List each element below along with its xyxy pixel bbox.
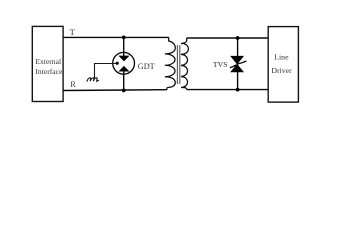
svg-text:Driver: Driver <box>271 66 292 75</box>
label: External Interface <box>35 57 63 76</box>
transformer T1: core (two bars) <box>176 45 178 84</box>
svg-text:T: T <box>70 27 76 37</box>
transformer T1: secondary winding (right) <box>181 38 188 90</box>
wire: secondary cusp ticks <box>181 54 184 77</box>
svg-text:Interface: Interface <box>35 67 63 76</box>
wire: R (bottom) from External Interface to transformer primary <box>63 89 167 92</box>
node: junction TVS / top wire <box>236 36 240 40</box>
wire: GDT vertical lower segment <box>123 71 125 91</box>
svg-text:External: External <box>35 57 61 66</box>
ground: chassis ground symbol <box>87 78 99 81</box>
node: junction GDT / R wire <box>122 89 126 93</box>
block: Line Driver <box>268 27 298 103</box>
node: junction GDT / T wire <box>122 36 126 40</box>
TVS diode (bidirectional) <box>230 56 247 72</box>
wire: T (top) from External Interface to transformer primary <box>63 36 169 38</box>
block: External Interface <box>32 26 63 101</box>
wire: secondary bottom to Line Driver <box>187 89 268 91</box>
svg-text:Line: Line <box>274 53 289 62</box>
node: junction TVS / bottom wire <box>236 88 240 92</box>
wire: GDT vertical upper segment <box>123 37 125 56</box>
gas discharge tube GDT (3-electrode) <box>113 52 135 74</box>
label: Line Driver <box>271 53 292 76</box>
transformer T1: primary winding (left) <box>165 37 175 89</box>
wire: TVS vertical <box>237 38 239 90</box>
wire: secondary top to Line Driver <box>187 37 269 39</box>
svg-text:R: R <box>70 80 76 89</box>
svg-text:GDT: GDT <box>138 62 155 71</box>
wire: GDT third electrode to ground <box>95 64 117 79</box>
svg-text:TVS: TVS <box>213 60 228 69</box>
